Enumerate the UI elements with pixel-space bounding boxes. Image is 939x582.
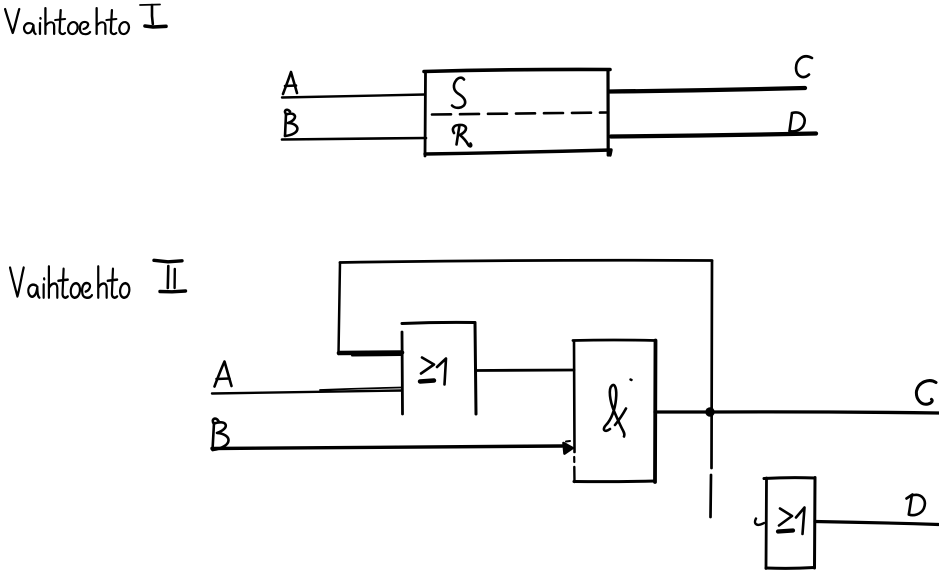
output label D (alt II) — [907, 495, 925, 516]
wire B input to SR box — [282, 138, 426, 140]
feedback wire left vertical — [339, 263, 341, 355]
AND gate box — [573, 340, 656, 482]
junction node dot — [705, 407, 714, 416]
label S — [452, 78, 465, 108]
output label D (alt I) — [790, 113, 805, 132]
arrowhead into AND gate — [564, 443, 573, 454]
roman numeral I — [140, 5, 166, 28]
wire B input to AND gate — [212, 446, 562, 449]
feedback wire top horizontal — [340, 260, 712, 262]
output label C (alt II) — [916, 381, 936, 405]
input label B (alt II) — [213, 419, 229, 450]
wire D output (alt II) — [815, 522, 939, 525]
title "Vaihtoehto" (alternative II heading) — [10, 266, 129, 297]
feedback wire stub into OR1 — [339, 350, 402, 355]
wire A input to OR1 — [212, 388, 402, 394]
OR gate 1 box (no bottom edge) — [402, 322, 476, 414]
wire OR1 output to AND gate — [476, 369, 574, 372]
OR gate 2 box — [764, 478, 815, 569]
wire C output (alt II) — [710, 412, 939, 413]
label ampersand in AND gate — [604, 380, 632, 437]
feedback vertical wire at right — [711, 261, 713, 517]
input label A (alt I) — [283, 72, 297, 94]
output label C (alt I) — [796, 56, 812, 77]
dashed select line inside SR box — [432, 113, 607, 115]
SR latch box — [424, 69, 611, 156]
label >=1 (OR1) — [420, 358, 446, 385]
label >=1 (OR2) — [778, 508, 805, 535]
label R — [453, 125, 471, 146]
wire AND output to junction — [655, 410, 710, 413]
roman numeral II — [154, 260, 186, 292]
title "Vaihtoehto" (alternative I heading) — [5, 8, 129, 34]
input label A (alt II) — [215, 362, 232, 387]
wire C output (alt I) — [610, 88, 805, 92]
input label B (alt I) — [285, 110, 297, 136]
input hook stub into OR2 — [755, 519, 764, 525]
wire A input to SR box — [282, 95, 425, 98]
wire D output (alt I) — [611, 134, 816, 137]
